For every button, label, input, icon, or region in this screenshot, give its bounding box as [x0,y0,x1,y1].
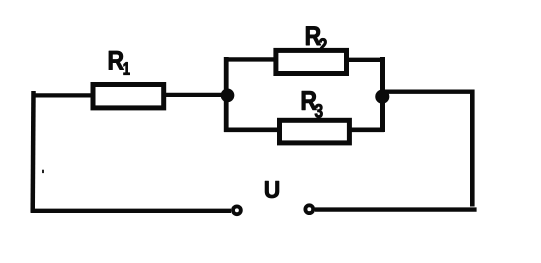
resistor R1 [93,85,164,108]
label U [265,181,279,198]
node A junction dot [221,89,234,102]
terminal right [305,205,313,213]
wire R1 right to node A [164,93,229,97]
label R2 [306,26,321,45]
label R2 subscript [319,38,327,52]
resistor R2 [276,50,347,73]
resistor R3 [280,120,350,143]
wire right vertical [470,90,475,207]
wire bottom-left horizontal [31,209,231,213]
wire R2 branch right [347,58,385,62]
node B junction dot [376,90,389,103]
wire top-left horizontal to R1 [32,93,93,97]
wire R3 branch left [224,128,282,133]
stray ink speck [42,170,44,173]
label R1 subscript [124,62,130,74]
wire parallel-left vertical [224,57,229,132]
wire node B to right [382,89,474,93]
terminal left [233,206,241,214]
label R3 [302,91,317,110]
wire R2 branch left [224,57,276,61]
wire bottom-right horizontal [315,207,477,211]
wire left vertical [30,91,35,213]
wire R3 branch right [347,128,384,133]
label R3 subscript [315,104,323,118]
wire parallel-right vertical [380,57,385,132]
label R1 [109,51,124,70]
